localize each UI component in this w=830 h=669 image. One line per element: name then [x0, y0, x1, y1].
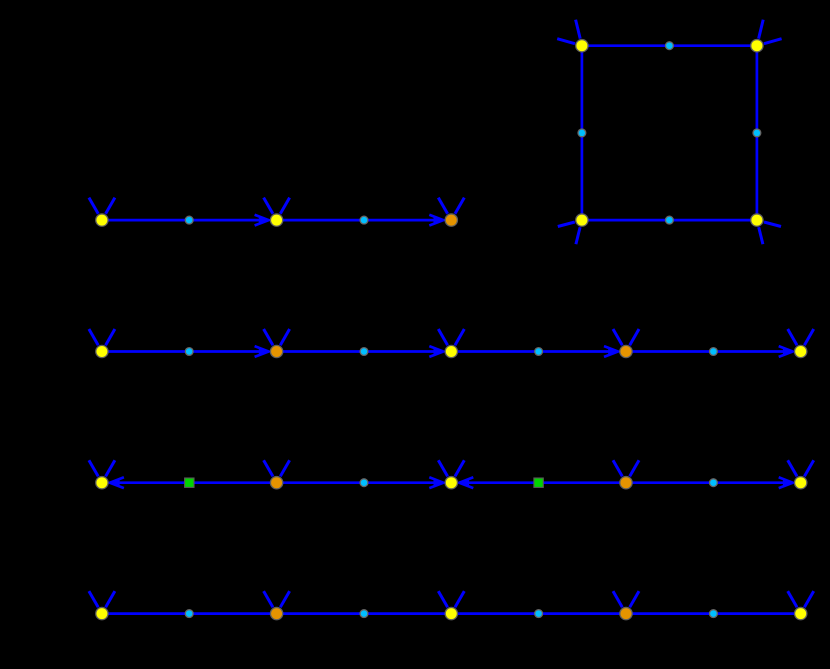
half-edge stub at node D2 (up-left): [264, 591, 273, 607]
half-edge stub at node C2 (up-right): [280, 460, 289, 476]
arrowhead of edge A1->A2: [255, 215, 269, 226]
wire: edge D1-D2 (row4, undirected): [102, 612, 277, 615]
half-edge stub at node D5 (up-left): [788, 591, 797, 607]
wire: edge B2->B3 (row2): [277, 350, 444, 353]
node C3 (yellow vertex): [445, 477, 457, 489]
midpoint marker m(S1,S3) cyan: [578, 129, 586, 137]
half-edge stub at node S3 (left): [558, 222, 575, 227]
half-edge stub at node A1 (up-right): [106, 198, 115, 214]
arrowhead of edge C2->C1: [110, 477, 124, 488]
half-edge stub at node A3 (up-left): [438, 198, 447, 214]
half-edge stub at node B4 (up-left): [613, 329, 622, 345]
midpoint marker m(B1,B2) cyan: [185, 348, 193, 356]
arrowhead of edge B3->B4: [604, 346, 618, 357]
node B1 (yellow vertex): [96, 345, 108, 357]
node A1 (yellow vertex): [96, 214, 108, 226]
node B4 (orange vertex): [620, 345, 632, 357]
half-edge stub at node C5 (up-left): [788, 460, 797, 476]
half-edge stub at node D1 (up-left): [89, 591, 98, 607]
node A3 (orange vertex): [445, 214, 457, 226]
midpoint marker m(C3,C4) green square: [534, 478, 543, 487]
midpoint marker m(S3,S4) cyan: [666, 216, 674, 224]
midpoint marker m(B4,B5) cyan: [710, 348, 718, 356]
midpoint marker m(C4,C5) cyan: [710, 479, 718, 487]
node B3 (yellow vertex): [445, 345, 457, 357]
midpoint marker m(B2,B3) cyan: [360, 348, 368, 356]
wire: edge A1->A2 (row1): [102, 219, 269, 222]
half-edge stub at node C4 (up-left): [613, 460, 622, 476]
node S3 (yellow vertex, square bottom-left): [576, 214, 588, 226]
wire: edge D3-D4 (row4, undirected): [451, 612, 626, 615]
half-edge stub at node S2 (right): [764, 39, 782, 44]
half-edge stub at node D3 (up-left): [438, 591, 447, 607]
arrowhead of edge B4->B5: [779, 346, 793, 357]
midpoint marker m(C1,C2) green square: [185, 478, 194, 487]
node C5 (yellow vertex): [795, 477, 807, 489]
arrowhead of edge C2->C3: [429, 477, 443, 488]
wire: edge B1->B2 (row2): [102, 350, 269, 353]
midpoint marker m(D3,D4) cyan: [535, 610, 543, 618]
wire: edge C2->C3 (row3, rightward): [277, 481, 444, 484]
half-edge stub at node S3 (down): [576, 227, 580, 244]
half-edge stub at node B2 (up-right): [280, 329, 289, 345]
half-edge stub at node A2 (up-left): [264, 198, 273, 214]
node D4 (orange vertex): [620, 607, 632, 619]
half-edge stub at node C1 (up-left): [89, 460, 98, 476]
node D2 (orange vertex): [270, 607, 282, 619]
wire: edge B4->B5 (row2): [626, 350, 793, 353]
half-edge stub at node B1 (up-right): [106, 329, 115, 345]
node D1 (yellow vertex): [96, 607, 108, 619]
midpoint marker m(D2,D3) cyan: [360, 610, 368, 618]
half-edge stub at node C3 (up-left): [438, 460, 447, 476]
node B5 (yellow vertex): [795, 345, 807, 357]
node S1 (yellow vertex, square top-left): [576, 40, 588, 52]
half-edge stub at node A3 (up-right): [455, 198, 464, 214]
midpoint marker m(D4,D5) cyan: [710, 610, 718, 618]
half-edge stub at node D5 (up-right): [804, 591, 813, 607]
node A2 (yellow vertex): [270, 214, 282, 226]
midpoint marker m(B3,B4) cyan: [535, 348, 543, 356]
wire: edge D4-D5 (row4, undirected): [626, 612, 801, 615]
midpoint marker m(A2,A3) cyan: [360, 216, 368, 224]
node B2 (orange vertex): [270, 345, 282, 357]
half-edge stub at node A1 (up-left): [89, 198, 98, 214]
half-edge stub at node B3 (up-right): [455, 329, 464, 345]
half-edge stub at node B5 (up-right): [804, 329, 813, 345]
half-edge stub at node B5 (up-left): [788, 329, 797, 345]
midpoint marker m(C2,C3) cyan: [360, 479, 368, 487]
node D3 (yellow vertex): [445, 607, 457, 619]
wire: square edge S2-S4 (right): [756, 46, 759, 220]
arrowhead of edge B1->B2: [255, 346, 269, 357]
arrowhead of edge A2->A3: [429, 215, 443, 226]
half-edge stub at node C2 (up-left): [264, 460, 273, 476]
half-edge stub at node B4 (up-right): [630, 329, 639, 345]
wire: edge C4->C3 (row3, leftward): [459, 481, 626, 484]
half-edge stub at node S1 (left): [557, 39, 575, 44]
half-edge stub at node B2 (up-left): [264, 329, 273, 345]
midpoint marker m(S2,S4) cyan: [753, 129, 761, 137]
half-edge stub at node C4 (up-right): [630, 460, 639, 476]
node D5 (yellow vertex): [795, 607, 807, 619]
half-edge stub at node C1 (up-right): [106, 460, 115, 476]
half-edge stub at node S2 (up): [759, 20, 764, 39]
arrowhead of edge C4->C5: [779, 477, 793, 488]
wire: edge C2->C1 (row3, leftward): [110, 481, 277, 484]
arrowhead of edge B2->B3: [429, 346, 443, 357]
half-edge stub at node C3 (up-right): [455, 460, 464, 476]
midpoint marker m(A1,A2) cyan: [185, 216, 193, 224]
half-edge stub at node S4 (right): [764, 222, 781, 227]
wire: square edge S3-S4 (bottom): [582, 219, 757, 222]
node S4 (yellow vertex, square bottom-right): [751, 214, 763, 226]
half-edge stub at node D4 (up-left): [613, 591, 622, 607]
half-edge stub at node B1 (up-left): [89, 329, 98, 345]
half-edge stub at node B3 (up-left): [438, 329, 447, 345]
wire: square edge S1-S2 (top): [582, 44, 757, 47]
half-edge stub at node D3 (up-right): [455, 591, 464, 607]
arrowhead of edge C4->C3: [459, 477, 473, 488]
half-edge stub at node D2 (up-right): [280, 591, 289, 607]
wire: square edge S1-S3 (left): [581, 46, 584, 220]
node C4 (orange vertex): [620, 477, 632, 489]
midpoint marker m(S1,S2) cyan: [666, 42, 674, 50]
wire: edge A2->A3 (row1): [277, 219, 444, 222]
wire: edge B3->B4 (row2): [451, 350, 618, 353]
wire: edge D2-D3 (row4, undirected): [277, 612, 452, 615]
node S2 (yellow vertex, square top-right): [751, 40, 763, 52]
wire: edge C4->C5 (row3, rightward): [626, 481, 793, 484]
half-edge stub at node C5 (up-right): [804, 460, 813, 476]
node C1 (yellow vertex): [96, 477, 108, 489]
node C2 (orange vertex): [270, 477, 282, 489]
half-edge stub at node S4 (down): [759, 227, 763, 244]
half-edge stub at node A2 (up-right): [280, 198, 289, 214]
half-edge stub at node S1 (up): [576, 20, 581, 39]
half-edge stub at node D1 (up-right): [106, 591, 115, 607]
midpoint marker m(D1,D2) cyan: [185, 610, 193, 618]
half-edge stub at node D4 (up-right): [630, 591, 639, 607]
